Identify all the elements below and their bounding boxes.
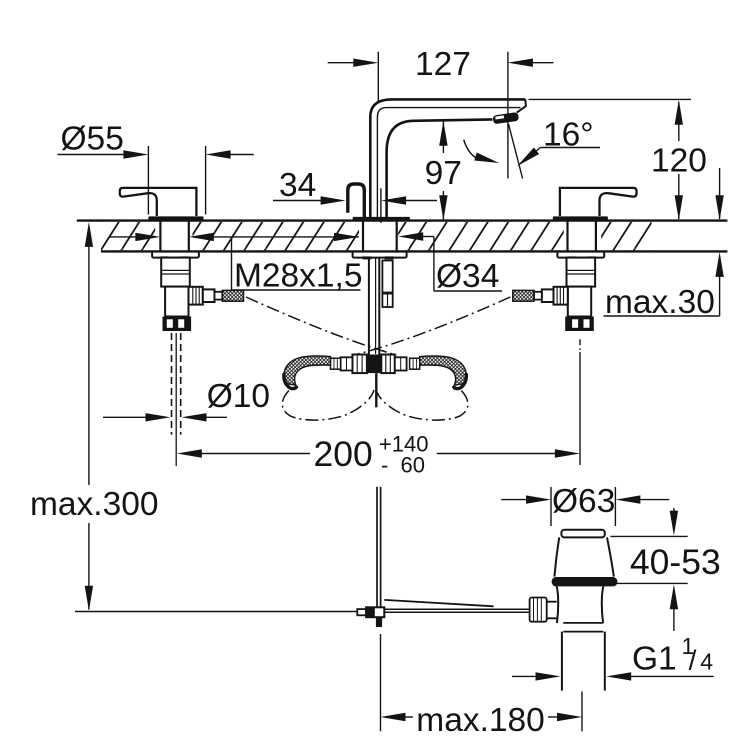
- svg-text:200: 200: [314, 434, 373, 474]
- pull rod inside tube: [375, 258, 377, 354]
- T-fitting right nut: [381, 355, 395, 374]
- dimension 127: [328, 46, 554, 179]
- valve bottom nut: [163, 317, 192, 332]
- rod-rail clamp: [366, 607, 384, 617]
- T-fitting right connector block: [395, 357, 407, 370]
- rail right rod (double line): [384, 608, 531, 610]
- svg-text:Ø10: Ø10: [207, 378, 270, 415]
- dimension max.30: [604, 168, 724, 321]
- rail overlap upper piece: [384, 600, 493, 606]
- right hose braid band: [420, 356, 466, 385]
- right braid end cap: [454, 375, 467, 389]
- right handle escutcheon: [553, 216, 608, 221]
- hose centerline right valve to T (crossing): [354, 297, 511, 355]
- left hose loop centerline: [282, 390, 374, 420]
- drain upper body: [554, 537, 613, 576]
- rod below T-fitting: [375, 373, 377, 407]
- right valve assembly below deck (mirror): [513, 252, 604, 331]
- dimension 40-53: [610, 508, 720, 631]
- aerator outlet: [493, 112, 519, 124]
- washer: [152, 252, 199, 258]
- outlet cylinder: [203, 289, 215, 302]
- svg-text:34: 34: [279, 167, 316, 204]
- spout tip chamfer: [517, 99, 526, 112]
- svg-text:Ø63: Ø63: [552, 483, 615, 520]
- outlet hex: [189, 287, 203, 305]
- deck hatching segment 3: [398, 222, 564, 251]
- spout outer profile: [370, 99, 525, 220]
- countertop deck top line: [77, 219, 728, 221]
- dimension O63: [501, 483, 669, 526]
- svg-text:16°: 16°: [543, 117, 594, 154]
- svg-text:max.180: max.180: [416, 702, 545, 739]
- svg-text:4: 4: [700, 649, 713, 675]
- center escutcheon plate: [353, 217, 410, 221]
- center shank through deck: [362, 221, 364, 252]
- dimension M28x1,5: [110, 233, 363, 295]
- drain tailpipe: [561, 632, 563, 691]
- svg-text:40-53: 40-53: [630, 542, 721, 582]
- countertop deck bottom line: [101, 250, 727, 252]
- hose braid stub: [222, 290, 243, 301]
- svg-text:120: 120: [651, 143, 707, 180]
- right handle lever: [560, 188, 637, 216]
- dimension 16 degrees: [464, 117, 600, 179]
- drain flange (black): [552, 577, 618, 586]
- dimension O34: [398, 232, 502, 295]
- clamp lower nub: [376, 617, 382, 627]
- horizontal actuating rail (left thin part): [75, 611, 357, 613]
- check valve housing on tube: [382, 261, 392, 293]
- center supply tube below deck: [368, 258, 370, 357]
- left valve shank through deck: [159, 221, 161, 252]
- dimension O55: [58, 121, 254, 215]
- dimension max.180: [381, 634, 583, 739]
- deck hatching segment 4: [601, 222, 652, 251]
- right valve shank through deck: [566, 221, 568, 252]
- svg-text:M28x1,5: M28x1,5: [234, 258, 363, 295]
- valve body: [161, 258, 190, 287]
- knurled knob: [530, 598, 547, 622]
- T-fitting left connector block: [341, 357, 353, 370]
- left hose braid band: [284, 356, 330, 385]
- svg-text:Ø55: Ø55: [61, 121, 124, 158]
- left handle escutcheon: [148, 216, 203, 221]
- svg-text:- 60: - 60: [381, 453, 425, 478]
- right hose collar: [410, 358, 420, 369]
- deck hatching segment 1: [101, 222, 155, 251]
- svg-text:max.300: max.300: [30, 486, 159, 523]
- T-fitting center block: [367, 355, 381, 374]
- drain pop-up plug cap: [561, 530, 604, 538]
- dimension 200 +140/-60: [177, 432, 580, 478]
- outlet nipple: [215, 292, 223, 300]
- T-fitting left nut: [352, 355, 367, 374]
- hose centerline left valve to T (crossing): [246, 297, 397, 355]
- svg-text:127: 127: [415, 46, 471, 83]
- drain lower body: [557, 586, 604, 623]
- left braid end cap: [284, 375, 297, 389]
- center locknut washer below deck: [353, 252, 407, 258]
- dimension G1 1/4: [512, 633, 714, 681]
- knob-body connector: [547, 602, 557, 619]
- clamp left stub: [357, 609, 366, 615]
- faucet center rod lower section: [376, 487, 378, 608]
- valve waist: [165, 287, 188, 317]
- svg-text:G1: G1: [632, 641, 677, 678]
- spout inner profile: [387, 119, 493, 220]
- spout top back edge + rear blade line: [377, 108, 520, 221]
- pull rod centerline: [175, 333, 177, 466]
- deck hatching segment 2: [193, 222, 360, 251]
- dimension 120: [529, 99, 707, 220]
- left handle lever: [120, 188, 197, 216]
- svg-text:Ø34: Ø34: [436, 258, 499, 295]
- pull rod dashed outline (Ø10): [171, 333, 173, 435]
- drain extension line from right valve: [579, 339, 581, 352]
- dimension O10: [103, 378, 270, 422]
- left valve assembly below deck: [152, 252, 243, 331]
- left hose collar: [331, 358, 341, 369]
- mixer lever (center, side view): [348, 184, 365, 220]
- svg-text:max.30: max.30: [605, 284, 715, 321]
- right hose loop centerline: [376, 390, 468, 420]
- dimension 34: [273, 167, 437, 223]
- svg-text:/: /: [689, 645, 697, 676]
- svg-text:97: 97: [425, 155, 462, 192]
- dimension max.300: [30, 222, 159, 611]
- dimension 97: [425, 121, 462, 221]
- drain coupling band: [563, 622, 603, 624]
